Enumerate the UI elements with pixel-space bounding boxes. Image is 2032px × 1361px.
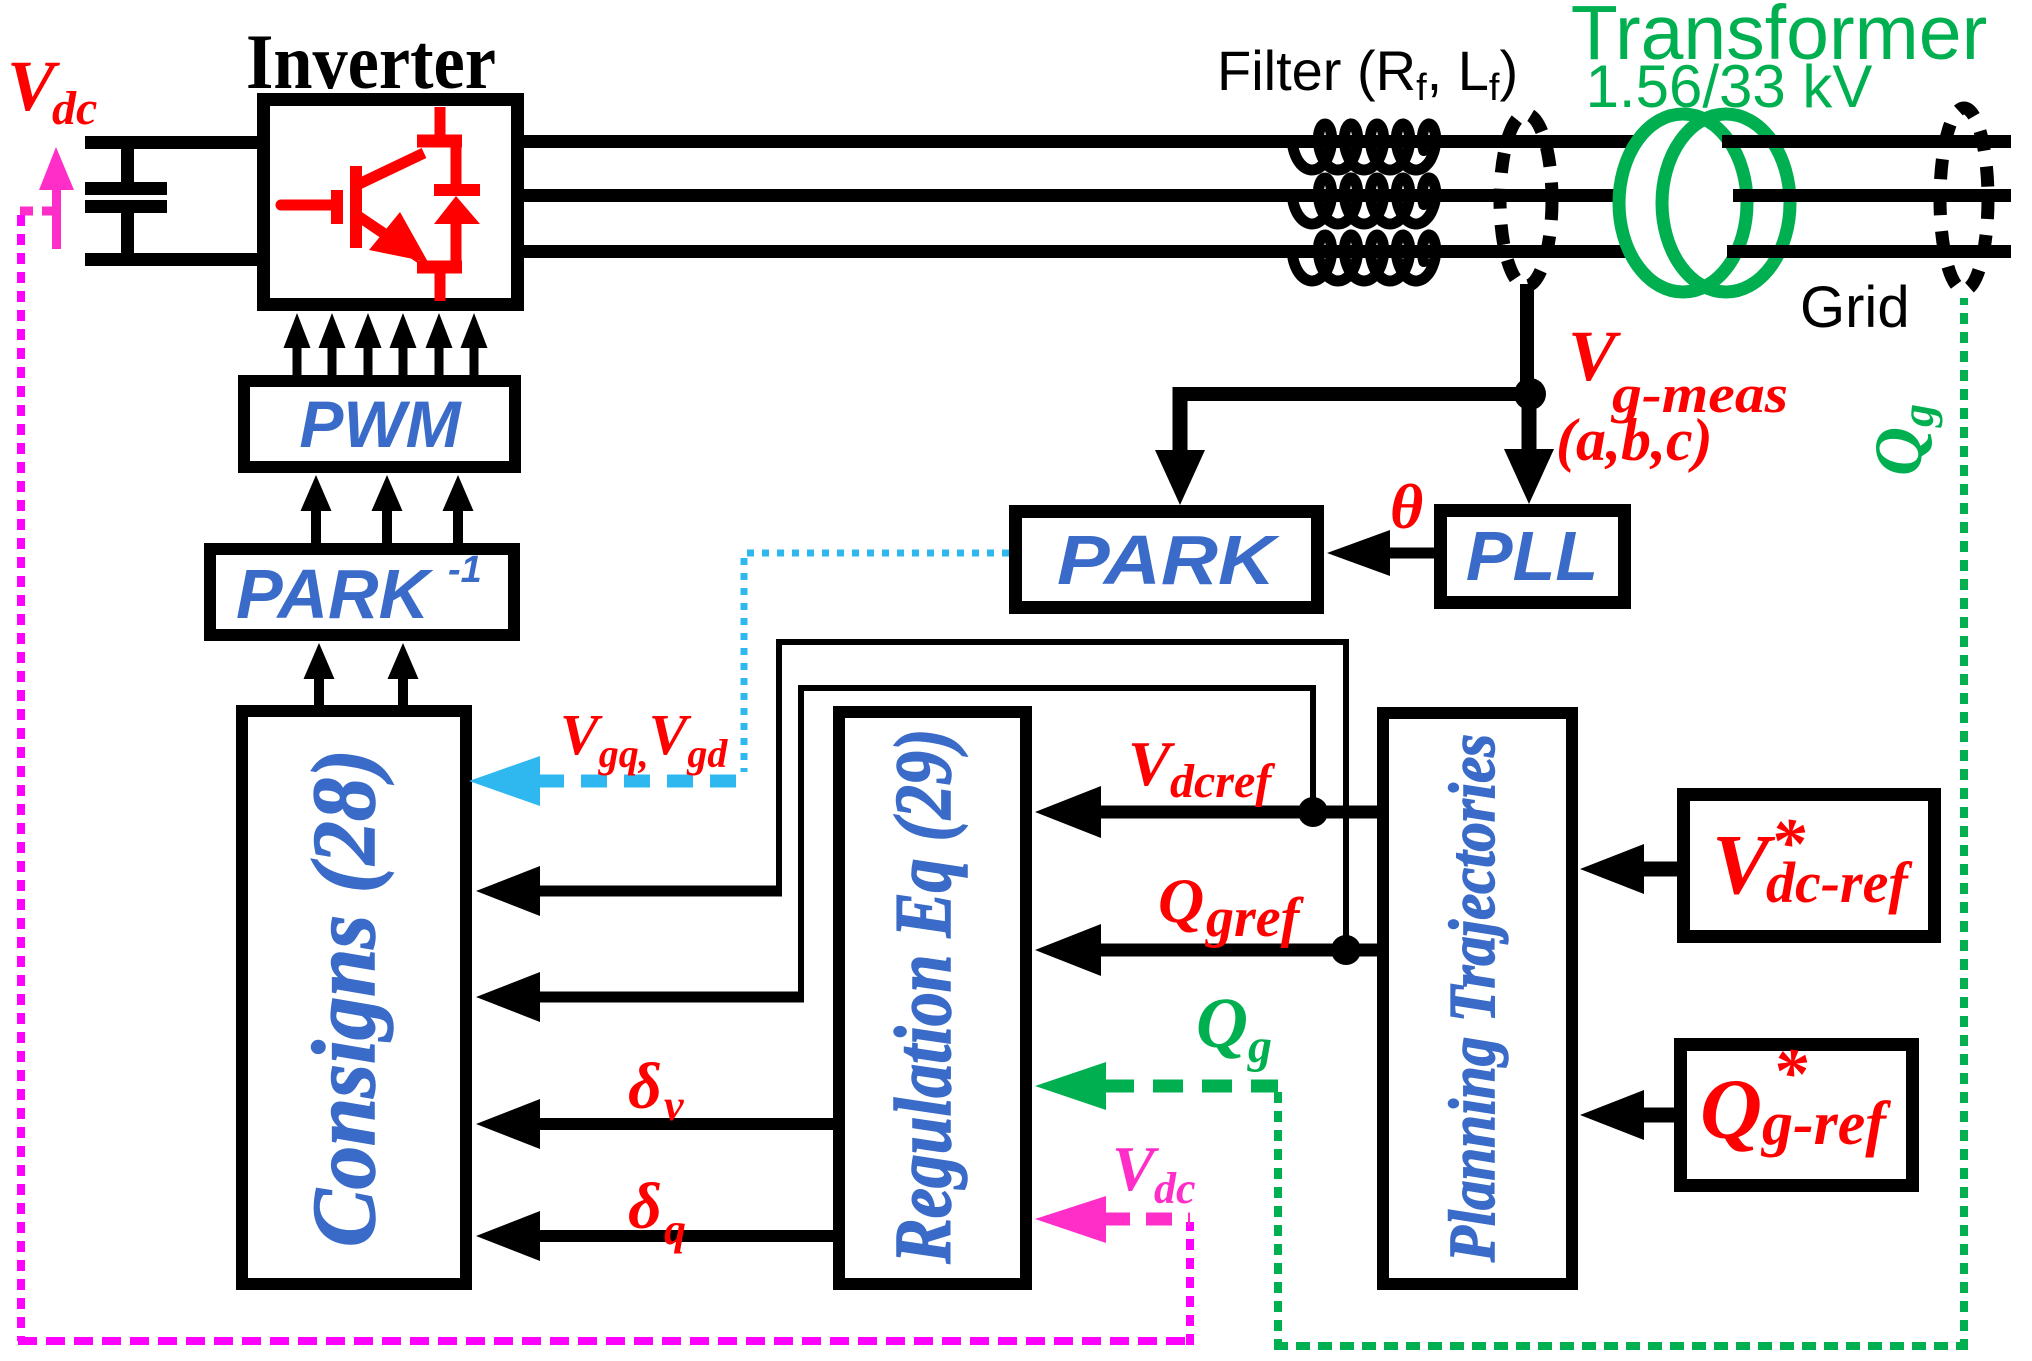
wire: phase A line (inverter to transformer) — [522, 135, 1660, 148]
arrow: Vdc measurement (magenta, up) — [52, 183, 61, 249]
svg-text:V: V — [1128, 728, 1176, 799]
wire: Vdc feedback dashed link (magenta) — [20, 207, 58, 216]
svg-text:g-ref: g-ref — [1760, 1090, 1891, 1158]
transistor Q1 (IGBT with anti-parallel diode, red) — [281, 107, 480, 301]
arrow: Vgq,Vgd into Consigns (cyan head) — [469, 756, 540, 806]
svg-text:PARK: PARK — [1057, 521, 1280, 599]
wire: Vgq,Vgd dotted link from PARK (cyan) — [744, 553, 1009, 772]
block PWM — [244, 381, 515, 467]
svg-text:θ: θ — [1390, 471, 1423, 542]
svg-text:Inverter: Inverter — [246, 18, 496, 105]
wire: phase A line (transformer to grid) — [1722, 135, 2011, 148]
svg-text:PARK: PARK — [236, 555, 434, 633]
arrow: theta from PLL to PARK — [1327, 530, 1390, 576]
wire: Vg-meas tap down from measurement point — [1520, 284, 1534, 394]
svg-text:PLL: PLL — [1466, 517, 1598, 595]
svg-text:-1: -1 — [448, 549, 482, 591]
svg-text:Filter (Rf, Lf): Filter (Rf, Lf) — [1217, 39, 1518, 109]
wire: phase B line (transformer to grid) — [1733, 189, 2011, 202]
wire: phase C line (inverter to transformer) — [522, 245, 1660, 258]
arrow: Qgref from Planning to Regulation Eq — [1035, 924, 1101, 976]
block Vdc-ref* source — [1684, 795, 1935, 937]
node: grid connection point (dashed ellipse) — [1940, 108, 1988, 290]
arrow: Vdcref feedback into Consigns — [476, 972, 540, 1022]
svg-text:Vgq,Vgd: Vgq,Vgd — [560, 702, 728, 776]
svg-text:δ: δ — [628, 1050, 662, 1123]
wire: phase B line (inverter to transformer) — [522, 189, 1660, 202]
node: junction dot on Qgref line — [1331, 935, 1361, 965]
svg-text:Consigns (28): Consigns (28) — [295, 749, 394, 1247]
transformer T1 (green) — [1619, 114, 1747, 292]
block PARK — [1016, 512, 1318, 608]
svg-text:q: q — [664, 1205, 686, 1254]
inductor Lf phase B — [1292, 178, 1435, 224]
svg-text:Qg: Qg — [1860, 404, 1943, 476]
svg-text:Q: Q — [1158, 865, 1204, 936]
arrow: Qg into Regulation Eq (green head) — [1035, 1062, 1106, 1110]
svg-text:V: V — [1112, 1133, 1160, 1204]
svg-text:dcref: dcref — [1170, 755, 1275, 808]
wire: phase C line (transformer to grid) — [1727, 245, 2011, 258]
block Regulation Eq (29) — [839, 712, 1026, 1284]
arrows: two signals Consigns to PARK-1 — [304, 643, 335, 679]
arrow: Vg-meas into PARK — [1155, 450, 1205, 505]
svg-text:dc: dc — [52, 82, 97, 135]
inductor Lf phase C — [1292, 235, 1435, 281]
arrows: three signals PARK-1 to PWM — [301, 475, 332, 511]
inductor Lf phase A — [1292, 124, 1435, 170]
wire: Vdc feedback dotted path left+bottom (magenta) — [17, 215, 25, 1341]
wire: Vg-meas horizontal to PARK — [1173, 387, 1530, 401]
arrow: Vdc into Regulation Eq (magenta head) — [1035, 1196, 1106, 1243]
node: junction dot on Vdcref line — [1298, 797, 1328, 827]
block PLL — [1441, 511, 1625, 603]
arrow: Qgref feedback into Consigns — [476, 866, 540, 916]
arrow: Vdcref from Planning to Regulation Eq — [1035, 786, 1101, 838]
svg-text:Grid: Grid — [1800, 275, 1910, 340]
arrow: Vg-meas into PLL — [1504, 449, 1554, 504]
svg-text:δ: δ — [628, 1170, 662, 1243]
block Qg-ref* source — [1681, 1045, 1913, 1186]
node: junction dot on Vg-meas tap — [1514, 378, 1546, 410]
wire: Vgq,Vgd dashed segment (cyan) — [538, 775, 748, 788]
svg-text:1.56/33 kV: 1.56/33 kV — [1586, 53, 1873, 120]
block PARK-1 — [210, 549, 514, 635]
svg-text:dc-ref: dc-ref — [1766, 850, 1913, 915]
arrow: delta-q from Regulation Eq to Consigns — [476, 1211, 540, 1261]
inverter block — [264, 100, 518, 305]
arrow: Qg-ref* into Planning Trajectories — [1580, 1090, 1644, 1140]
svg-text:(a,b,c): (a,b,c) — [1556, 407, 1713, 473]
svg-text:Q: Q — [1196, 983, 1248, 1063]
svg-text:g: g — [1247, 1020, 1272, 1073]
wire: Vdcref feedback loop (inner thin) — [801, 688, 1313, 993]
wire: Qg dotted path (green) — [1274, 1092, 1282, 1346]
wire: DC bus top rail — [85, 136, 262, 149]
block Planning Trajectories — [1383, 713, 1572, 1284]
block Consigns (28) — [242, 711, 466, 1284]
svg-text:Regulation Eq (29): Regulation Eq (29) — [880, 729, 968, 1265]
arrow: delta-v from Regulation Eq to Consigns — [476, 1099, 540, 1149]
svg-text:Q: Q — [1700, 1061, 1762, 1157]
svg-text:v: v — [664, 1081, 684, 1130]
arrows: six gate signals PWM to inverter — [284, 313, 311, 348]
wire: DC bus bottom rail — [85, 253, 262, 266]
wire: Vdc dashed segment (magenta) — [1104, 1213, 1190, 1226]
node: Vg measurement point (dashed ellipse) — [1500, 114, 1552, 286]
svg-text:gref: gref — [1204, 887, 1305, 949]
arrow: Vdc-ref* into Planning Trajectories — [1580, 844, 1644, 894]
svg-text:PWM: PWM — [299, 387, 462, 461]
wire: Qgref feedback loop (outer thin) — [779, 642, 1346, 944]
svg-text:Planning Trajectories: Planning Trajectories — [1436, 734, 1509, 1263]
capacitor C (DC-link) — [85, 182, 167, 195]
wire: Qg dashed segment (green) — [1104, 1080, 1278, 1093]
svg-text:dc: dc — [1154, 1164, 1196, 1213]
